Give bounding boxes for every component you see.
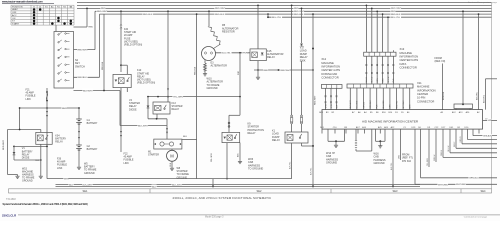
cab ground junction (335, 140, 337, 142)
svg-text:SE4: SE4 (481, 189, 486, 193)
wire WHT horizontal (47, 178, 292, 180)
starter relay K13 contact (164, 108, 165, 109)
start aid relay lower wire (120, 88, 122, 152)
table contact dots (33, 8, 36, 11)
load dump relay box (285, 132, 308, 143)
diode V1 symbol (13, 152, 16, 155)
relay feed horizontal (8, 129, 41, 131)
start aid fuse F20 symbol (120, 24, 122, 26)
key switch contacts (58, 34, 60, 36)
alternator area ground wire (257, 70, 259, 76)
alternator relay K15 box (250, 49, 266, 61)
left branch wire (19, 108, 21, 130)
wire to battery G1 (78, 108, 80, 119)
alternator relay K15 diode (261, 53, 264, 56)
battery relay contact (46, 138, 47, 139)
svg-text:SE3: SE3 (393, 189, 398, 193)
starter motor M1 circle (167, 150, 178, 161)
starter relay feed wire (167, 11, 169, 102)
load dump fuse 2 (301, 115, 303, 117)
svg-text:RED/WHT: RED/WHT (78, 49, 89, 51)
starter solenoid contacts (160, 142, 164, 146)
harness ground 2 junction (379, 140, 381, 142)
load dump coil (287, 135, 293, 141)
svg-text:RED-BLK: RED-BLK (143, 14, 153, 16)
svg-text:WHT: WHT (64, 178, 70, 180)
svg-text:BLK-W: BLK-W (372, 77, 374, 83)
svg-text:INFORMATION: INFORMATION (321, 65, 340, 69)
svg-text:GRN: GRN (390, 104, 392, 109)
svg-text:GRN: GRN (331, 104, 333, 109)
download connector strip X12 (321, 85, 342, 89)
load dump diode feed (301, 8, 303, 43)
load dump bottom junction (312, 145, 314, 147)
svg-text:BLU-YEL: BLU-YEL (483, 95, 485, 103)
wire RED to battery (20, 107, 79, 109)
svg-text:ACC: ACC (12, 14, 17, 17)
svg-text:X13: X13 (400, 47, 405, 51)
wire RED from key switch to bus (74, 26, 88, 28)
svg-text:HEAT: HEAT (12, 8, 18, 11)
svg-text:RELAY: RELAY (267, 56, 275, 59)
svg-text:Continued on next page: Continued on next page (464, 216, 488, 219)
wire label RED (88, 25, 93, 28)
svg-text:BLU-YEL: BLU-YEL (272, 17, 282, 19)
protection ground symbol (239, 160, 241, 161)
cascade exit 473 (472, 134, 474, 136)
svg-text:ORG-B: ORG-B (441, 149, 443, 156)
svg-text:P/N 310: P/N 310 (402, 160, 412, 163)
svg-text:RED-WHT: RED-WHT (3, 139, 5, 150)
bottom wire label BLK-WHT (82, 183, 93, 186)
svg-text:GRN: GRN (377, 78, 379, 83)
bus junction F20 (120, 10, 122, 12)
footer rule (18, 214, 500, 216)
svg-text:RED/WHT: RED/WHT (281, 70, 292, 72)
starter feed arrows (166, 128, 168, 130)
diode V1 wire (13, 146, 15, 160)
starter relay K13 bottom pin (156, 114, 158, 119)
start aid relay lower stub (126, 88, 128, 92)
svg-text:PUR: PUR (238, 70, 240, 75)
download connector pins down (325, 88, 327, 109)
svg-text:BLK/WHT: BLK/WHT (83, 90, 93, 92)
svg-text:GRN-BLK: GRN-BLK (483, 135, 492, 137)
starter relay K13 box (153, 102, 170, 114)
diode V1 bottom wire (14, 159, 41, 161)
starter enclosure drop (212, 179, 214, 187)
wire label BLK-WHT ks (83, 89, 94, 92)
svg-text:MACHINE: MACHINE (417, 85, 430, 89)
bus wire RED 1 (77, 4, 492, 6)
resistor module legs (455, 109, 457, 110)
svg-text:(REF. F9): (REF. F9) (435, 60, 446, 63)
MIC bottom stubs (321, 129, 323, 133)
svg-text:RED-BLK: RED-BLK (195, 66, 197, 75)
bottom wire label BLK (69, 183, 74, 186)
harness ground 2 symbol (379, 145, 381, 146)
bus junction BLU-YEL (267, 13, 269, 15)
cascade exit 456 (455, 134, 457, 149)
svg-text:POSITION: POSITION (12, 6, 23, 8)
alternator resistor R5 diagonal (208, 27, 220, 45)
load dump contact (299, 137, 300, 138)
wire GRN-BLU (420, 134, 422, 178)
svg-text:DOWNLOAD: DOWNLOAD (321, 72, 337, 76)
starter relay diode V4 wire (147, 97, 149, 119)
six pin feed wires (365, 5, 367, 52)
starter relay drop wire (166, 119, 168, 139)
bus label RED-BLK left (143, 12, 154, 15)
alternator output wire (216, 52, 251, 54)
svg-text:AID MACHINE INFORMATION CENTER: AID MACHINE INFORMATION CENTER (362, 119, 419, 123)
rail junction (46, 107, 48, 109)
svg-text:RED-WHT: RED-WHT (314, 95, 316, 105)
svg-text:GROUND: GROUND (326, 162, 337, 165)
svg-text:RED-Y: RED-Y (454, 141, 456, 147)
cab ground symbol W14 (335, 144, 337, 145)
starter relay feed junction (167, 10, 169, 12)
alternator relay to wire (257, 61, 259, 70)
load dump fuse lower wires (291, 124, 293, 132)
long drop wire x313 (312, 14, 314, 146)
starter protection right drop (239, 143, 241, 161)
svg-text:M: M (170, 154, 174, 159)
svg-text:X11: X11 (417, 81, 422, 85)
starter motor ground wire (171, 161, 173, 167)
BLU-YEL entry drop (485, 79, 487, 110)
svg-text:MACHINE: MACHINE (321, 61, 334, 65)
relay BLK drop (40, 144, 42, 175)
alternator ground wire (204, 60, 206, 63)
long drop wire 393 (392, 134, 394, 187)
start aid relay coil (118, 78, 124, 84)
starter relay diode V4 symbol (147, 106, 150, 109)
wire GRN-BLU label (469, 176, 480, 179)
wire RED-BLK from key switch (74, 76, 100, 78)
six pin connector strip X13 (364, 52, 396, 56)
starter relay top wire (148, 96, 240, 98)
svg-text:BLU-RED: BLU-RED (383, 100, 385, 109)
svg-text:SE2: SE2 (257, 189, 262, 193)
bus label RED right (391, 9, 396, 12)
bus wire RED 2 (77, 7, 492, 9)
svg-text:BRN-BLK: BRN-BLK (443, 91, 445, 100)
svg-text:BATTERY: BATTERY (87, 148, 98, 151)
svg-text:RELAY: RELAY (55, 141, 63, 144)
six pin lower wires (365, 56, 367, 84)
wire WHT-RED label (456, 182, 467, 185)
svg-text:RELAY: RELAY (272, 139, 280, 142)
bottom mid label BLK-WHT (172, 183, 183, 186)
starter protection coil (227, 135, 232, 140)
load dump left drop (291, 143, 293, 179)
svg-text:CONNECTOR: CONNECTOR (417, 99, 434, 103)
svg-text:CENTER 4-PIN: CENTER 4-PIN (321, 68, 340, 72)
svg-text:GRN-BLU: GRN-BLU (469, 178, 479, 180)
starter ground symbol W8 (171, 167, 173, 168)
BLU-YEL entry wire (486, 78, 498, 80)
svg-text:ALTERNATOR: ALTERNATOR (211, 65, 228, 68)
svg-text:BLU-YEL: BLU-YEL (391, 17, 401, 19)
svg-text:OFF: OFF (12, 12, 17, 14)
starter relay top junction 1 (147, 96, 149, 98)
load dump diode symbol V17 (300, 44, 303, 47)
svg-text:BLK: BLK (36, 160, 40, 162)
svg-text:WHT-BLK: WHT-BLK (403, 100, 405, 109)
cascade label GRN-BLK (483, 134, 492, 136)
alternator ground symbol W10 (204, 73, 206, 74)
starter right wire BLK (182, 139, 197, 141)
right feed wire A2 (478, 14, 480, 110)
svg-text:BATTERY: BATTERY (87, 122, 98, 125)
machine information center box (322, 110, 483, 130)
bus label RED mid2 (294, 6, 299, 9)
svg-text:ON: ON (12, 18, 16, 20)
fanout drop 436 (435, 134, 437, 163)
drop junction mid (312, 48, 314, 50)
alternator relay K15 coil (252, 52, 257, 58)
alternator ground resistor (204, 63, 207, 71)
svg-text:BLK-YEL: BLK-YEL (391, 163, 393, 170)
svg-text:GRN-R: GRN-R (460, 136, 462, 143)
svg-text:CENTER 6-PIN: CENTER 6-PIN (400, 58, 419, 62)
left margin rail RED-WHT (7, 130, 9, 175)
svg-text:YEL-RED: YEL-RED (357, 100, 359, 108)
svg-text:GROUND: GROUND (22, 180, 33, 183)
starter protection relay box K9 (222, 132, 240, 142)
cab ground wires (327, 129, 329, 141)
wire BLK-WHT to starter (120, 125, 167, 127)
starter relay K13 coil (155, 106, 162, 111)
start aid relay K10 box (113, 74, 131, 87)
svg-text:TX14848: TX14848 (6, 198, 16, 201)
ten pin pins down (349, 88, 351, 110)
bottom mid label BLK (152, 185, 157, 188)
relay interconnect wire (14, 145, 47, 147)
wire RED-WHT from key switch (74, 49, 96, 51)
svg-text:GRN-W: GRN-W (434, 154, 436, 161)
alternator area ground (257, 76, 259, 77)
wire label RED-WHT ks (77, 48, 88, 51)
svg-text:PUR: PUR (243, 53, 248, 55)
svg-text:BLU-W: BLU-W (448, 145, 450, 151)
fanout drop 429 (428, 134, 430, 168)
alternator feed junction (208, 10, 210, 12)
section divider 1 (149, 189, 151, 193)
svg-text:X12: X12 (321, 57, 326, 61)
MIC right exit wire GRN (483, 120, 498, 122)
load dump fuse wires (291, 5, 293, 115)
svg-text:INFORMATION: INFORMATION (417, 88, 436, 92)
start aid fuse wire lower (120, 29, 122, 72)
schematic border top (77, 1, 492, 3)
fusible link F21 symbol (46, 91, 48, 93)
bus label RED left (101, 6, 106, 9)
schematic border right (491, 2, 493, 188)
cascade exit 450 (449, 134, 451, 153)
relay feed junction (19, 129, 21, 131)
wire WHT label (64, 177, 69, 180)
svg-text:Model 230 page 3: Model 230 page 3 (205, 217, 224, 219)
svg-text:LINK: LINK (124, 162, 130, 165)
wire BLK-YEL drop (312, 146, 314, 187)
svg-text:230CLL, 230CLC, AND 270CLC SYS: 230CLL, 230CLC, AND 270CLC SYSTEM FUNCTI… (173, 196, 272, 200)
svg-text:500K: 500K (300, 59, 306, 62)
svg-text:CONNECTOR: CONNECTOR (321, 75, 338, 79)
wire label PUR (243, 51, 248, 54)
bottom wire BLK long (56, 184, 421, 186)
svg-text:DIODE: DIODE (129, 108, 137, 111)
svg-text:INFORMATION: INFORMATION (400, 55, 419, 59)
wire RED RED-WHT horizontal (254, 69, 313, 71)
svg-text:ORG-BLK: ORG-BLK (370, 100, 372, 109)
starter protection contact (234, 137, 235, 138)
svg-text:RED-YEL: RED-YEL (396, 101, 398, 109)
svg-text:SE1: SE1 (83, 189, 88, 193)
battery relay K04 box (36, 132, 52, 144)
bus label RED-BLK mid1 (215, 12, 226, 15)
bus wire RED-WHT (95, 10, 492, 12)
svg-text:BLK-YEL: BLK-YEL (311, 168, 313, 175)
alternator relay feed junction (257, 5, 259, 7)
svg-text:START: START (12, 22, 20, 25)
wire label RED-BLK ks (77, 75, 88, 78)
svg-text:BLK-WHT: BLK-WHT (172, 184, 183, 186)
bus drop b5 (103, 14, 105, 90)
battery interconnect wire (78, 125, 80, 146)
svg-text:ORG: ORG (399, 154, 401, 159)
svg-text:BLK-WHT: BLK-WHT (350, 100, 352, 109)
key switch S2 box (54, 32, 74, 89)
starter enclosure right wire (196, 14, 198, 179)
starter protection drop (226, 143, 228, 179)
load dump relay bottom wire (301, 143, 303, 146)
starter relay feed arrow (167, 89, 169, 91)
svg-text:BLU-W: BLU-W (388, 76, 390, 82)
svg-text:ORG: ORG (325, 104, 327, 109)
svg-text:RED-WHT: RED-WHT (97, 11, 108, 13)
svg-text:GROUND: GROUND (374, 162, 385, 165)
starter relay bottom junction (156, 118, 158, 120)
PUR drop wire (239, 53, 241, 97)
resistor module feed wire (462, 11, 464, 104)
svg-text:BLK-WHT: BLK-WHT (83, 184, 94, 186)
bus label RED-WHT mid2 (294, 9, 305, 12)
svg-text:RED: RED (264, 70, 269, 72)
start aid relay contact (127, 80, 128, 81)
alternator wire junction (239, 52, 241, 54)
svg-text:GROUND: GROUND (207, 87, 218, 90)
cascade exit 443 (442, 134, 444, 158)
bus label RED-BLK mid2 (294, 12, 305, 15)
wire label BLU-YEL alt (221, 51, 232, 54)
bus label RED-BLK right (391, 12, 402, 15)
svg-text:CENTER: CENTER (417, 92, 428, 96)
protection relay fuse wire (228, 115, 230, 132)
start aid relay diode (115, 80, 118, 82)
svg-text:LINK: LINK (57, 167, 63, 170)
start aid lower arrows (120, 131, 122, 133)
bottom wire right label WHT-RED (438, 183, 449, 186)
svg-text:YEL-R: YEL-R (366, 77, 368, 83)
bus label BLU-YEL mid (272, 15, 283, 18)
battery arrows (78, 131, 80, 133)
wire label BLK starter (183, 134, 188, 137)
svg-text:BLK-WHT: BLK-WHT (138, 125, 149, 127)
svg-text:RELAY: RELAY (172, 108, 180, 111)
battery ground wire (78, 151, 80, 167)
start aid relay jog (120, 64, 122, 66)
battery ground symbol W5 (78, 166, 80, 167)
relay feed drop (40, 130, 42, 133)
svg-text:MACHINE: MACHINE (400, 51, 413, 55)
alternator circle E3 (202, 47, 216, 61)
svg-text:10-PIN: 10-PIN (417, 96, 425, 100)
starter enclosure junction (226, 178, 228, 180)
drop wire 400 (400, 134, 402, 161)
svg-text:RED-BLK: RED-BLK (294, 14, 304, 16)
svg-text:BLK: BLK (183, 136, 188, 138)
bus label RED-WHT right (391, 6, 402, 9)
cascade exit 467 (467, 134, 469, 140)
svg-text:230CLCLR: 230CLCLR (2, 214, 16, 218)
section strip (9, 189, 492, 193)
battery G1 (76, 118, 82, 120)
svg-text:DIODE: DIODE (22, 157, 30, 160)
svg-text:YEL-RED: YEL-RED (427, 158, 429, 166)
protection relay fuse (228, 122, 230, 124)
harness ground 2 stem (379, 141, 381, 144)
starter solenoid to motor wire (171, 149, 173, 150)
wire label BLK-WHT 2 (138, 124, 149, 127)
harness ground 2 wires (375, 134, 377, 142)
svg-text:ORG: ORG (382, 78, 384, 83)
load dump fuse 1 (291, 115, 293, 117)
bottom mid wire (56, 186, 421, 188)
wire key switch drop (119, 91, 121, 126)
svg-text:RELAY: RELAY (248, 132, 256, 135)
cascade exit 462 (461, 134, 463, 144)
svg-text:RED: RED (62, 108, 67, 110)
svg-text:GROUND: GROUND (84, 172, 95, 175)
bus label BLU-YEL right (391, 15, 402, 18)
bus wire BLU-YEL (268, 16, 492, 18)
wire table to key switch (55, 25, 57, 31)
svg-text:BLK: BLK (69, 184, 74, 186)
svg-text:STARTER: STARTER (148, 154, 159, 157)
resistor module junction (462, 103, 464, 105)
key switch bottom rail (46, 88, 48, 179)
svg-text:TO GROUND: TO GROUND (248, 168, 263, 171)
svg-text:YEL-GRN: YEL-GRN (173, 96, 183, 98)
start aid fuse wire upper (120, 11, 122, 24)
svg-text:YEL-GRN: YEL-GRN (211, 153, 213, 162)
svg-text:System Functional Schematic 23: System Functional Schematic 230CLL, 230C… (3, 203, 88, 206)
wire WHT-RED (414, 134, 416, 185)
wire label RED2 (62, 106, 67, 109)
protection relay feed wire (239, 97, 241, 116)
starter solenoid box (154, 139, 182, 149)
svg-text:DATA: DATA (400, 62, 407, 66)
machine harness ground wire (8, 174, 18, 176)
alternator relay feed wire (257, 5, 259, 49)
bus label RED-WHT mid1 (215, 6, 226, 9)
section divider 2 (330, 189, 332, 193)
svg-text:RED-BLK: RED-BLK (102, 61, 104, 70)
battery G2 (76, 144, 82, 146)
fuse arrows (46, 111, 48, 113)
